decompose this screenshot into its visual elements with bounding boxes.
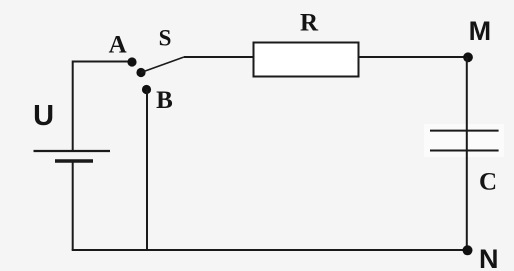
wire: left rail upper vertical: [72, 61, 74, 152]
svg-text:N: N: [479, 244, 499, 271]
svg-text:A: A: [109, 31, 127, 58]
wire: node B down to bottom rail: [146, 90, 148, 251]
battery U positive plate: [34, 150, 111, 152]
wire: bottom rail: [72, 249, 468, 251]
switch S pivot junction: [136, 68, 145, 77]
svg-text:C: C: [479, 169, 497, 196]
capacitor C bottom plate: [430, 150, 499, 152]
svg-text:R: R: [300, 9, 319, 36]
node A: [127, 57, 136, 66]
svg-text:U: U: [33, 100, 54, 132]
capacitor C top plate: [430, 130, 499, 132]
wire: left rail lower vertical: [72, 161, 74, 250]
wire: resistor to node M: [359, 56, 469, 58]
node M: [463, 52, 473, 62]
wire: node M down through capacitor to node N: [466, 57, 468, 250]
switch S lever: [141, 57, 184, 73]
node N: [463, 245, 473, 255]
node B: [142, 85, 151, 94]
svg-text:B: B: [156, 87, 173, 114]
svg-text:M: M: [469, 16, 492, 46]
wire: switch lever to resistor: [184, 56, 254, 58]
svg-text:S: S: [159, 26, 172, 51]
battery U negative plate: [55, 159, 93, 163]
resistor R body: [254, 43, 359, 77]
wire: left rail top horizontal to node A: [72, 61, 132, 63]
